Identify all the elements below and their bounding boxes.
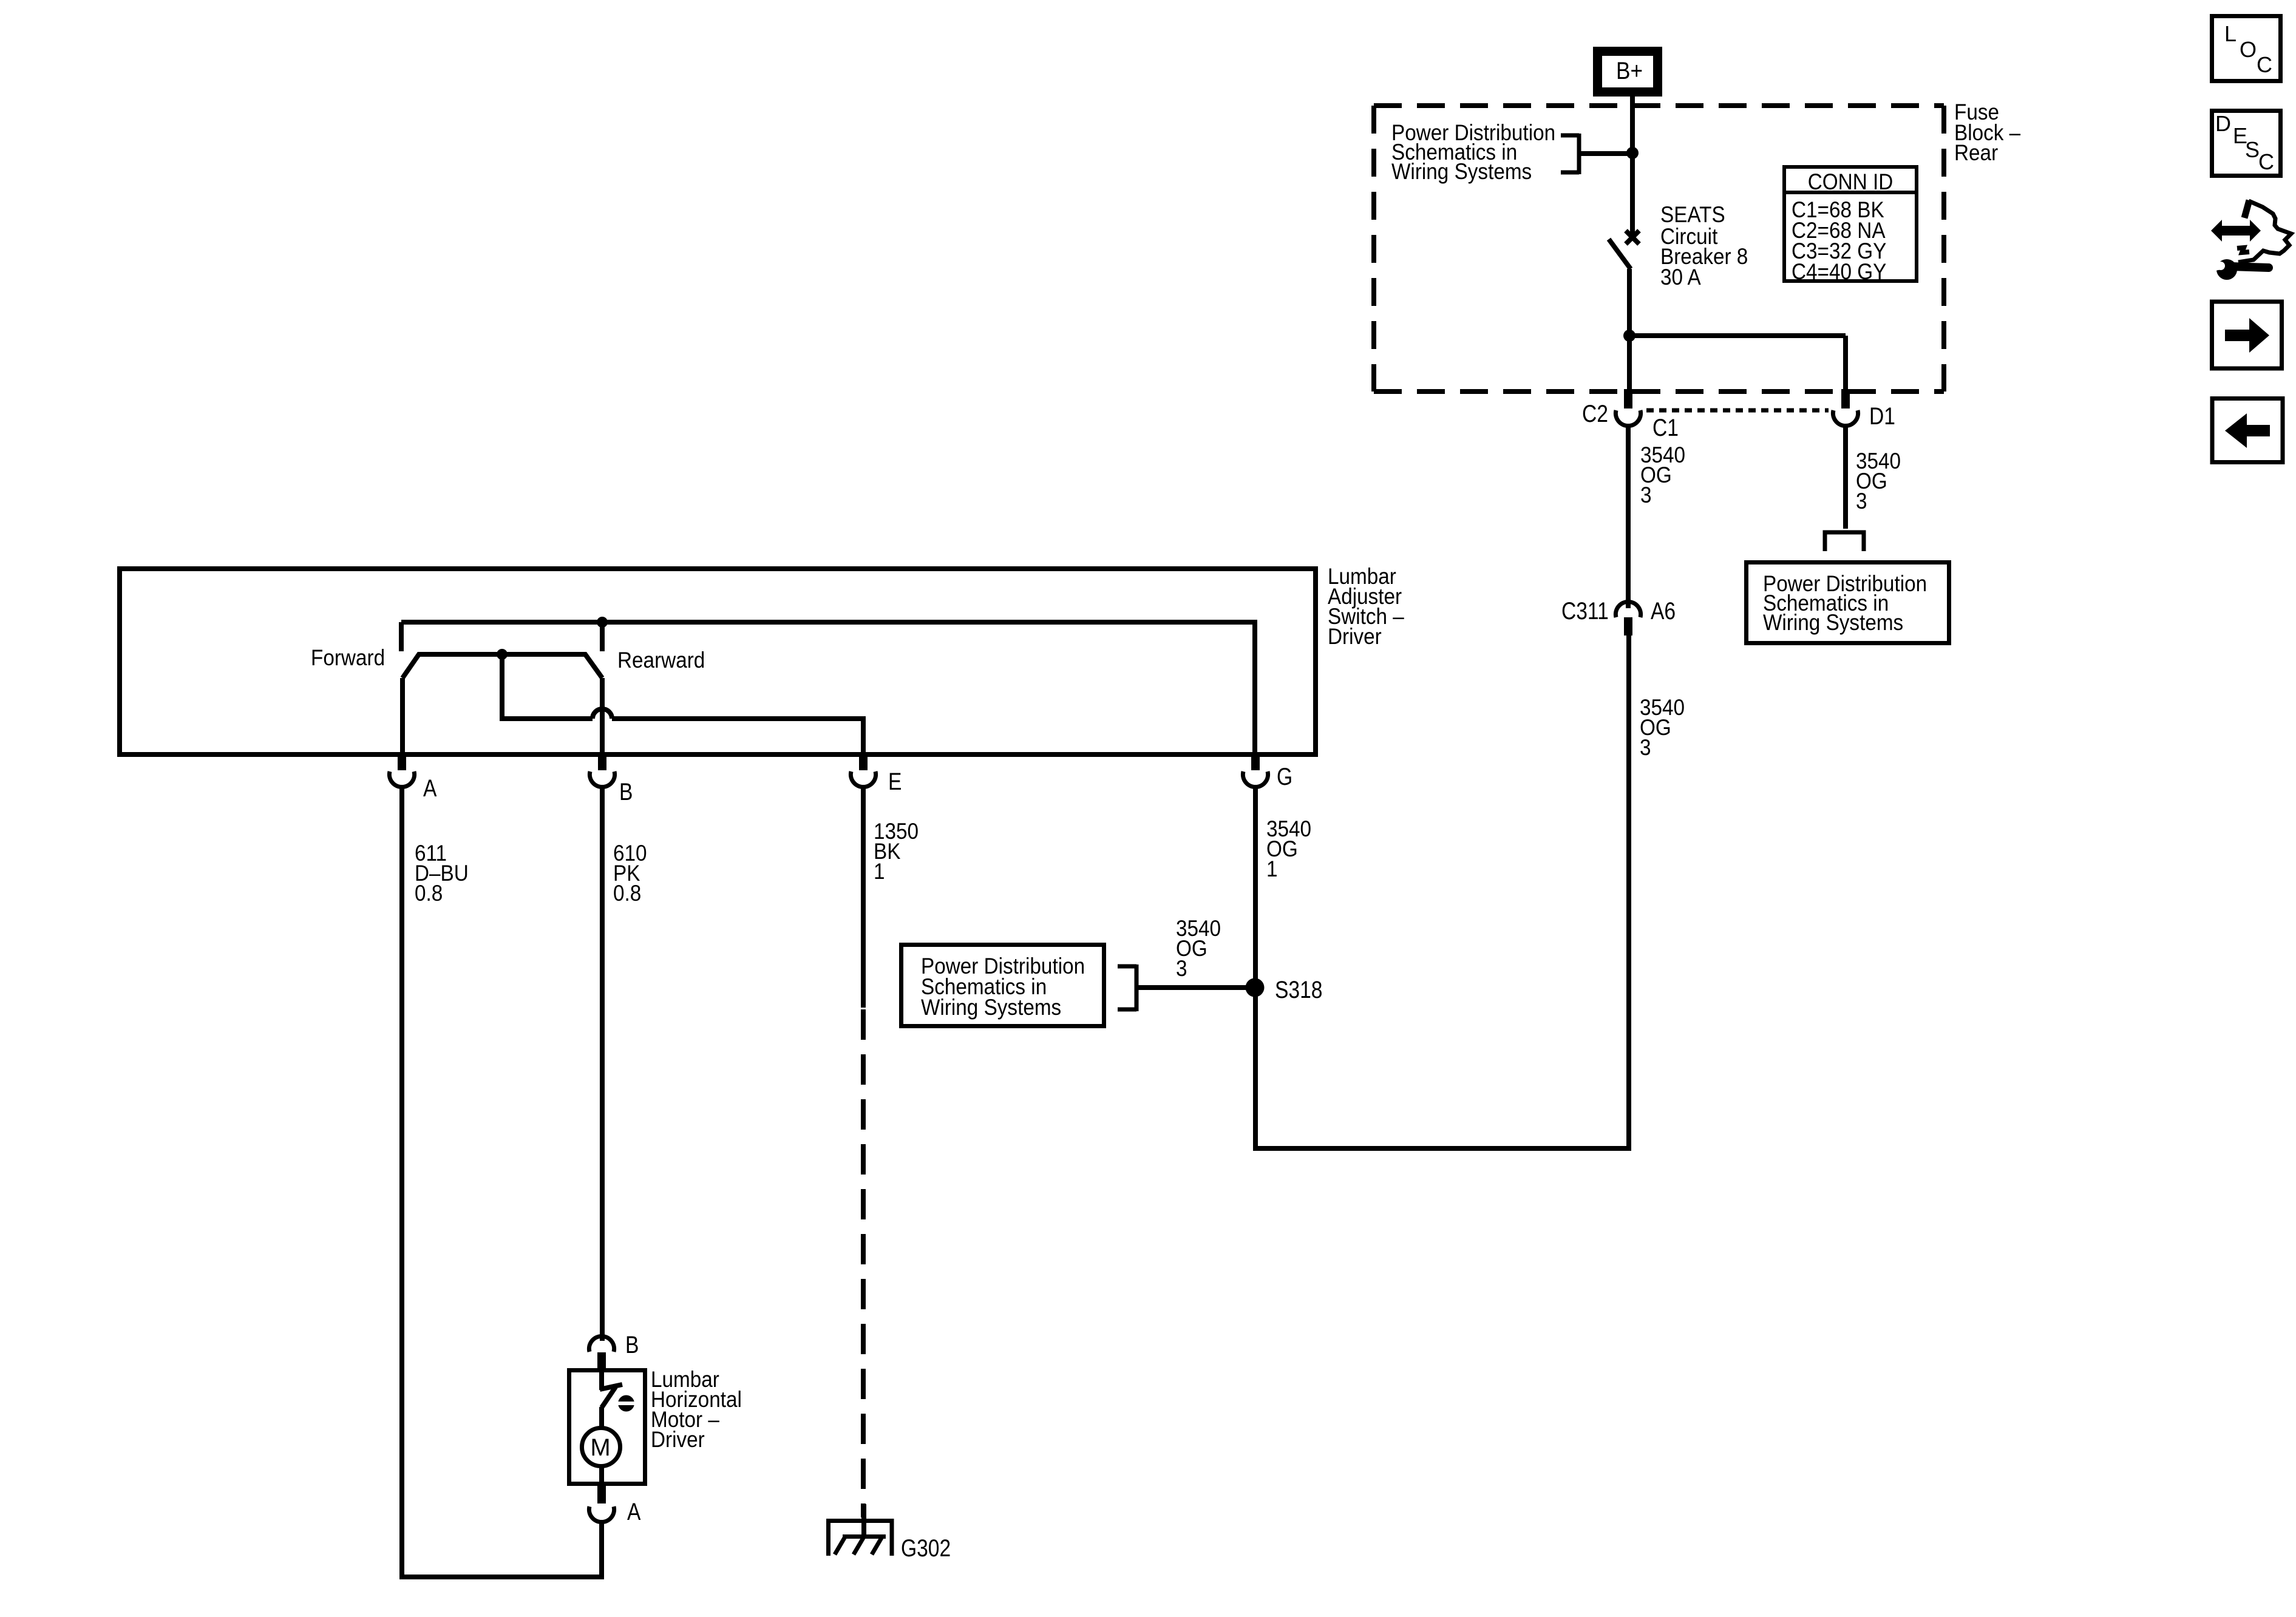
svg-text:G302: G302 [901,1534,951,1561]
svg-text:C311: C311 [1561,597,1609,624]
svg-text:C1: C1 [1652,414,1679,441]
svg-text:Rear: Rear [1954,140,1998,165]
svg-text:A: A [423,775,437,801]
svg-text:B: B [619,778,633,805]
svg-text:B: B [625,1331,639,1358]
svg-text:30 A: 30 A [1660,265,1701,290]
svg-text:C4=40 GY: C4=40 GY [1792,259,1886,284]
svg-text:Forward: Forward [311,645,385,670]
svg-text:3: 3 [1640,735,1651,760]
svg-text:3: 3 [1640,483,1652,507]
svg-text:M: M [590,1434,610,1461]
svg-text:B+: B+ [1616,57,1643,84]
svg-text:Driver: Driver [1328,624,1382,649]
svg-text:CONN ID: CONN ID [1808,169,1894,194]
svg-text:Wiring Systems: Wiring Systems [921,995,1061,1020]
svg-text:Wiring Systems: Wiring Systems [1391,159,1532,184]
svg-text:3: 3 [1856,489,1867,514]
svg-text:D1: D1 [1869,402,1895,429]
svg-text:A6: A6 [1651,597,1676,624]
svg-text:1: 1 [874,859,885,884]
svg-text:S318: S318 [1275,976,1322,1003]
svg-text:L: L [2224,21,2237,46]
svg-text:S: S [2245,137,2260,162]
svg-text:O: O [2240,37,2257,62]
svg-text:Driver: Driver [651,1427,705,1452]
svg-text:0.8: 0.8 [613,881,641,906]
svg-text:Wiring Systems: Wiring Systems [1763,610,1903,635]
svg-text:E: E [888,768,902,795]
svg-text:C: C [2257,52,2272,77]
svg-text:1: 1 [1266,856,1278,881]
svg-text:G: G [1277,763,1292,790]
svg-text:3: 3 [1176,956,1187,981]
svg-text:A: A [627,1498,641,1525]
svg-text:C2: C2 [1582,400,1608,427]
svg-text:D: D [2215,111,2231,136]
svg-text:C: C [2258,149,2274,174]
svg-text:SEATS: SEATS [1660,202,1725,227]
svg-text:Rearward: Rearward [617,648,705,673]
svg-text:0.8: 0.8 [415,881,443,906]
